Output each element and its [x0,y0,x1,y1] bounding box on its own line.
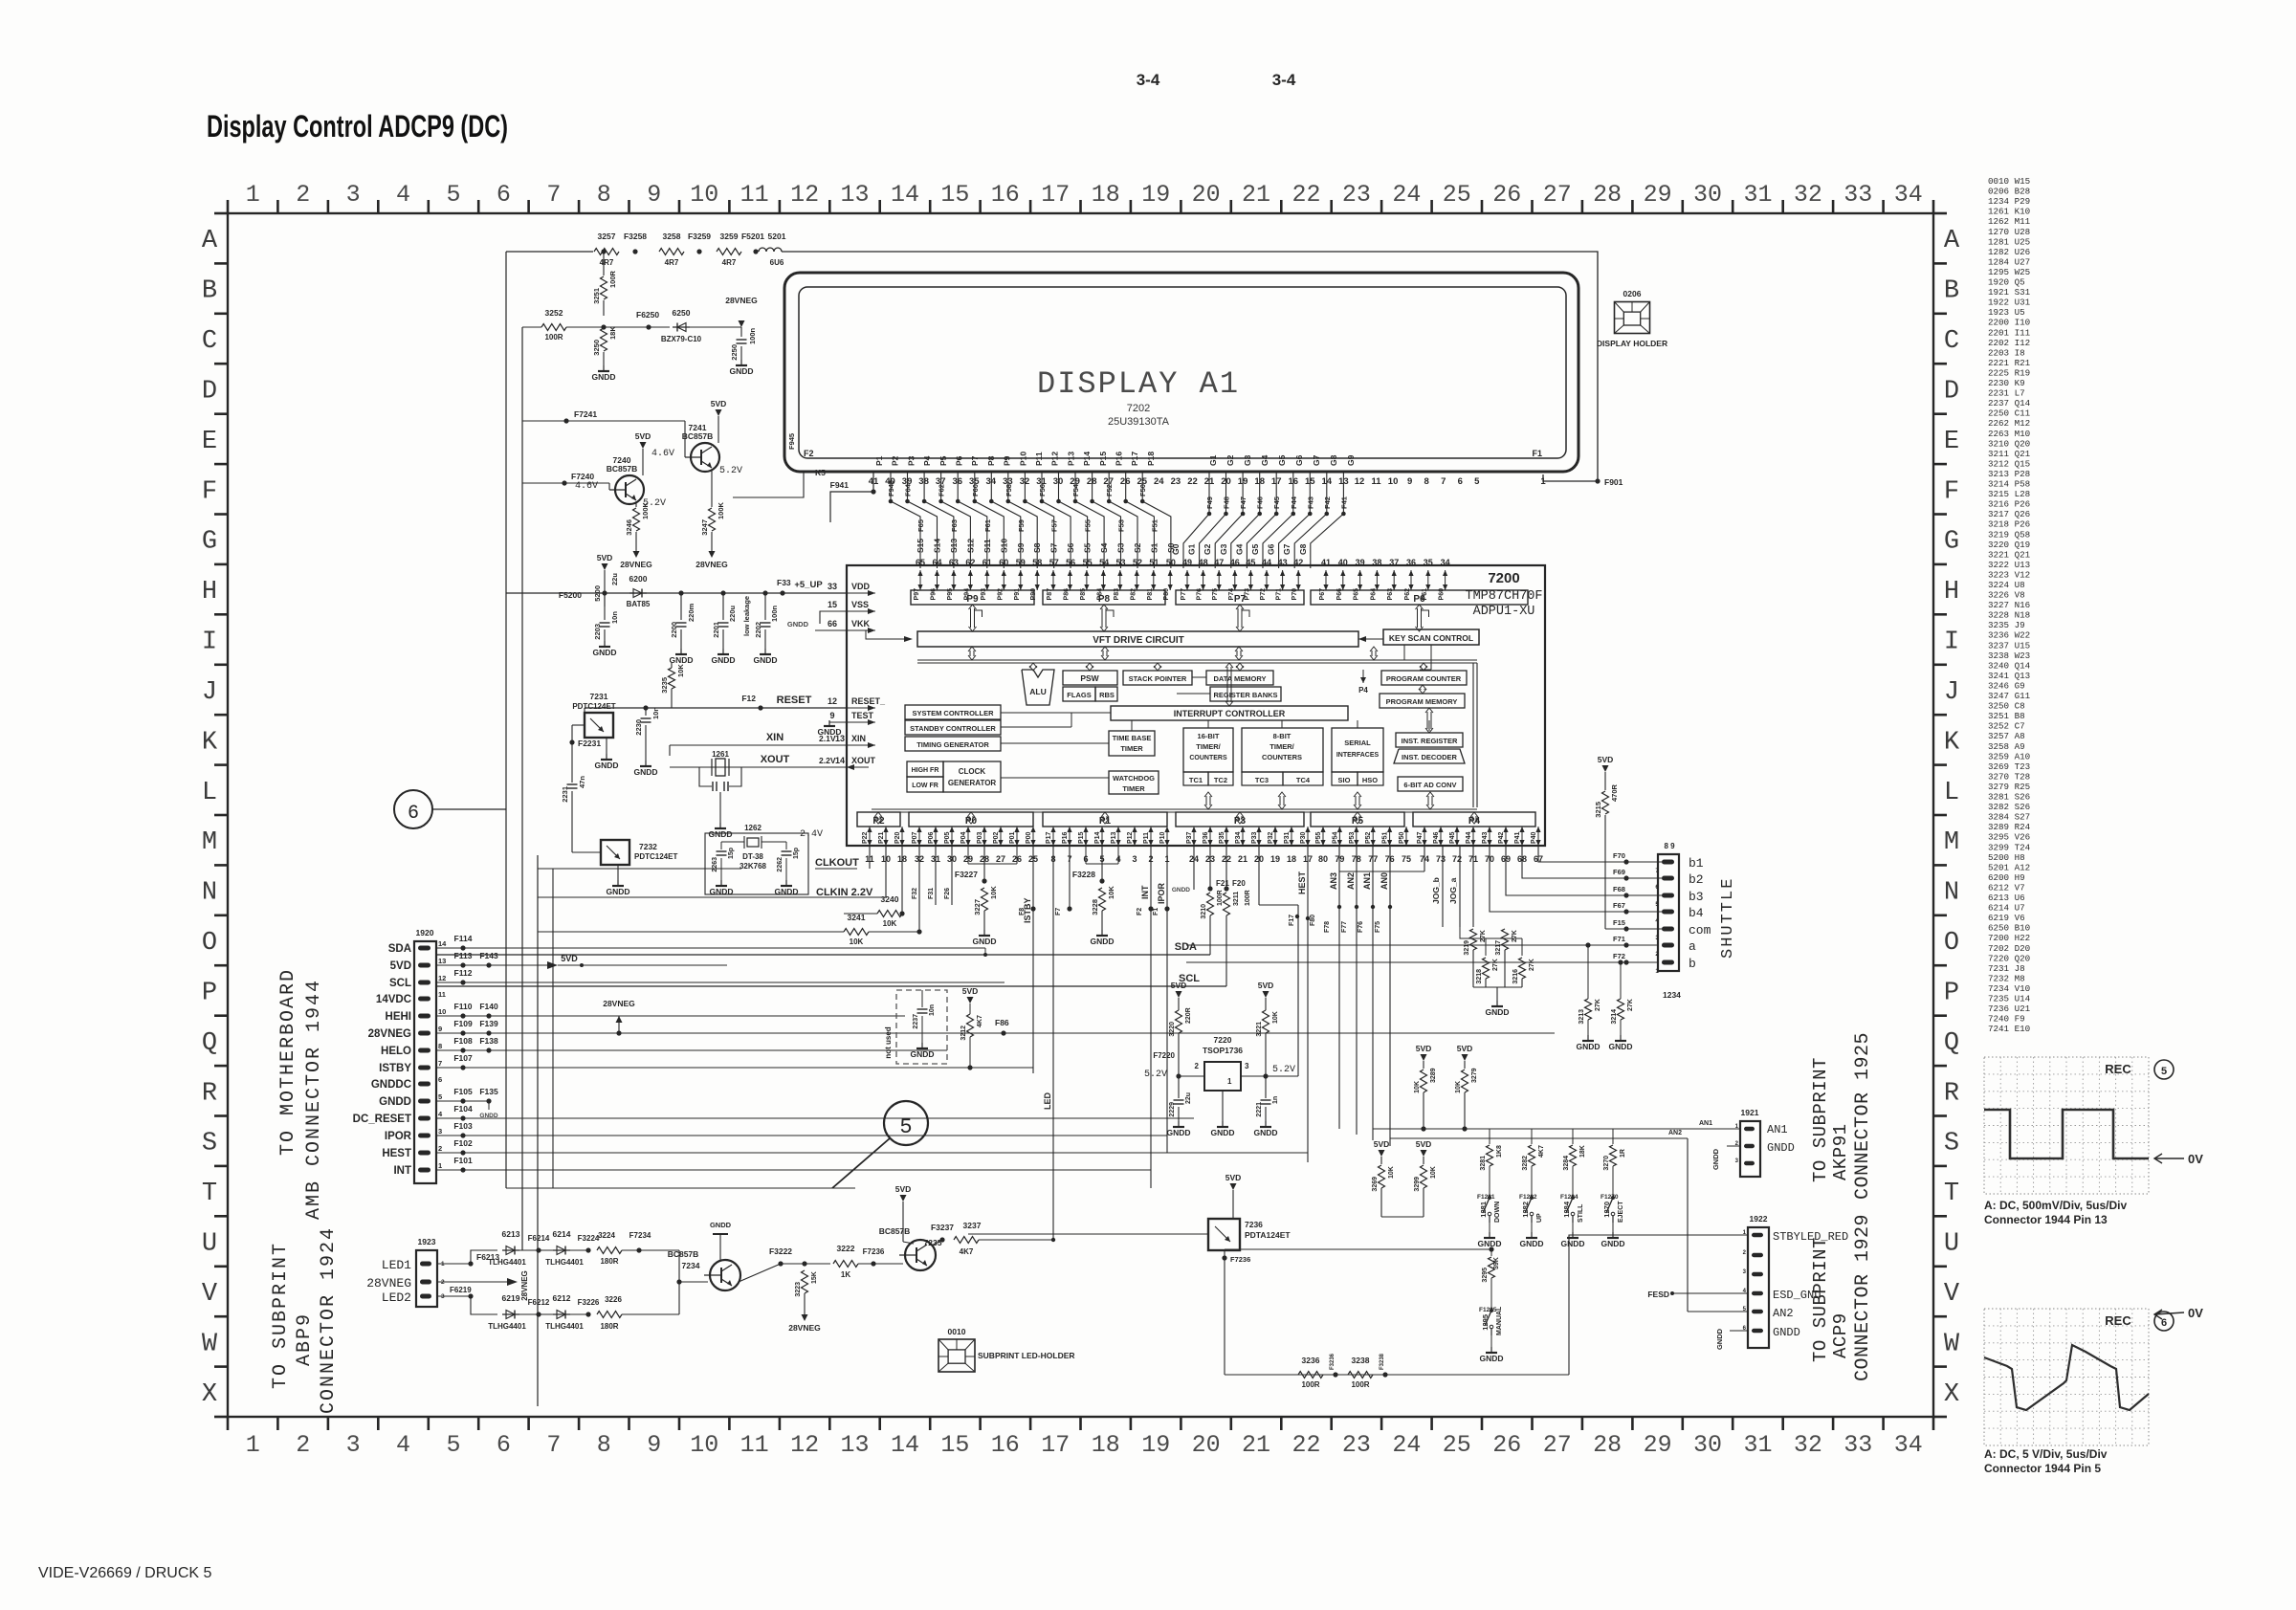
resistor 3251 100R vertical [603,252,605,276]
svg-text:F20: F20 [1232,879,1246,888]
svg-text:F113: F113 [454,951,473,960]
svg-text:F72: F72 [1613,952,1625,960]
svg-text:RESET_: RESET_ [851,696,886,706]
connector 1920 pin 8 HELO [418,1048,430,1053]
long vertical wire x546 [521,327,523,1250]
svg-text:6: 6 [1458,476,1463,487]
svg-text:1262 M11: 1262 M11 [1988,216,2031,227]
svg-text:P72: P72 [1260,588,1267,601]
resistor 3235 10K vertical [671,663,673,668]
svg-text:F46: F46 [1256,496,1265,509]
svg-text:3217 Q26: 3217 Q26 [1988,509,2030,519]
svg-text:2262: 2262 [777,857,784,872]
svg-text:XIN: XIN [851,734,866,743]
transistor 7235 BC857B [905,1240,936,1270]
svg-text:G4: G4 [1260,454,1269,466]
ground under 3250 [603,365,605,371]
svg-text:3257: 3257 [598,232,616,241]
svg-text:F114: F114 [454,934,473,943]
wire IPOR [436,1135,1167,1136]
svg-text:CONNECTOR 1925: CONNECTOR 1925 [1852,1032,1874,1200]
svg-text:9: 9 [647,181,661,209]
IC port box P5 [1311,812,1404,827]
svg-text:3228 N18: 3228 N18 [1988,610,2030,621]
svg-text:DISPLAY HOLDER: DISPLAY HOLDER [1597,339,1667,348]
svg-text:100R: 100R [544,333,563,342]
svg-text:F3226: F3226 [578,1298,600,1307]
connector 1920 pin 4 DC_RESET [418,1116,430,1121]
svg-text:P07: P07 [912,831,918,844]
svg-text:22: 22 [1291,181,1320,209]
svg-text:Q: Q [1944,1029,1959,1058]
SYSTEM CONTROLLER box [905,705,1001,719]
svg-text:H: H [202,578,217,607]
svg-text:3: 3 [1132,854,1137,864]
svg-text:2.4V: 2.4V [800,829,823,840]
svg-text:P4: P4 [922,455,932,466]
resistor 3246 100K vertical [633,508,640,531]
svg-text:SDA: SDA [388,943,411,955]
svg-text:P76: P76 [1197,588,1203,601]
svg-text:5: 5 [1655,901,1659,908]
svg-text:19: 19 [1141,1431,1170,1459]
svg-text:15p: 15p [728,848,735,859]
svg-text:MANUAL: MANUAL [1496,1306,1503,1335]
P4 riser from key scan [1403,645,1405,660]
svg-text:2221: 2221 [1256,1102,1263,1117]
svg-text:8-BIT: 8-BIT [1273,732,1291,740]
svg-text:F26: F26 [944,888,951,899]
svg-text:3: 3 [1655,935,1659,941]
svg-text:ALU: ALU [1029,687,1046,696]
svg-text:P16: P16 [1062,831,1069,844]
connector 1920 pin 6 GNDDC [418,1082,430,1087]
svg-text:24: 24 [1154,476,1164,487]
svg-text:7: 7 [546,181,561,209]
svg-text:SUBPRINT LED-HOLDER: SUBPRINT LED-HOLDER [978,1351,1075,1360]
resistor 3282 4K7 [1531,1129,1533,1144]
svg-text:1281 U25: 1281 U25 [1988,236,2030,247]
svg-text:TLHG4401: TLHG4401 [545,1322,584,1331]
pin stubs out of port P4 [1424,827,1425,846]
svg-text:TO MOTHERBOARD: TO MOTHERBOARD [277,968,299,1156]
svg-text:CLOCK: CLOCK [959,767,986,776]
svg-text:F71: F71 [1613,935,1625,943]
svg-text:3210 Q20: 3210 Q20 [1988,438,2030,449]
svg-text:F58: F58 [1004,484,1013,496]
svg-text:JOG_b: JOG_b [1431,877,1441,904]
svg-text:S9: S9 [1016,542,1026,553]
svg-text:1234 P29: 1234 P29 [1988,196,2030,207]
svg-text:VSS: VSS [851,600,869,609]
svg-text:P02: P02 [993,831,1000,844]
svg-text:HEST: HEST [1297,871,1307,894]
svg-text:3216 P26: 3216 P26 [1988,499,2030,510]
IC port box P1 [1043,812,1167,827]
svg-text:10K: 10K [1107,886,1115,899]
svg-text:S10: S10 [999,539,1008,553]
svg-text:1: 1 [246,1431,260,1459]
svg-text:S3: S3 [1116,542,1126,553]
svg-text:TLHG4401: TLHG4401 [488,1258,526,1267]
svg-text:6219 V6: 6219 V6 [1988,913,2025,923]
svg-text:P41: P41 [1514,831,1521,844]
svg-text:3270 T28: 3270 T28 [1988,771,2030,782]
pin stubs into port P6 [1325,570,1327,590]
svg-text:15p: 15p [793,848,800,859]
connector 1920 pin 5 GNDD [418,1099,430,1104]
svg-text:P: P [202,980,217,1008]
wire HEHI [436,1015,905,1017]
svg-text:18K: 18K [1579,1145,1586,1158]
wire y1306 horizontal to switch [1225,1248,1491,1250]
WATCHDOG TIMER box [1109,771,1159,794]
svg-text:28VNEG: 28VNEG [725,296,758,305]
connector 1922 body [1748,1227,1769,1348]
svg-text:20: 20 [1192,181,1221,209]
svg-text:2262 M12: 2262 M12 [1988,418,2030,429]
svg-text:7232: 7232 [639,842,657,851]
svg-text:13: 13 [840,1431,869,1459]
svg-text:P12: P12 [1127,831,1134,844]
connector 1923 body [416,1250,437,1307]
svg-text:16-BIT: 16-BIT [1198,732,1220,740]
svg-text:REGISTER BANKS: REGISTER BANKS [1213,691,1277,699]
svg-text:F101: F101 [453,1156,473,1165]
capacitor 2262 15p [785,842,787,849]
svg-text:33: 33 [1843,1431,1872,1459]
svg-text:G2: G2 [1203,543,1212,555]
svg-text:20: 20 [1192,1431,1221,1459]
svg-text:10: 10 [690,181,718,209]
svg-text:C: C [202,327,217,356]
wire LED1 to diode chain [437,1250,497,1264]
svg-text:GNDD: GNDD [1519,1239,1543,1248]
svg-text:3219 Q58: 3219 Q58 [1988,529,2030,540]
svg-text:G7: G7 [1282,543,1291,555]
svg-text:14: 14 [891,1431,919,1459]
svg-text:X: X [1944,1380,1959,1409]
svg-text:F7236: F7236 [1230,1255,1250,1264]
svg-text:3269 T23: 3269 T23 [1988,761,2030,772]
wire pin 24 down small gndd [1193,846,1195,890]
svg-text:27K: 27K [1595,999,1601,1011]
hollow arrow P7 to VFT bar [1237,608,1239,628]
svg-text:26: 26 [1492,1431,1521,1459]
svg-text:S1: S1 [1149,542,1159,553]
TSOP1736 IR receiver 7220 [1204,1062,1241,1091]
svg-text:3252 C7: 3252 C7 [1988,721,2025,732]
svg-text:F6219: F6219 [450,1286,472,1294]
svg-text:5VD: 5VD [962,986,979,996]
svg-text:P03: P03 [977,831,983,844]
svg-text:S4: S4 [1099,542,1109,553]
svg-text:F7241: F7241 [574,409,597,419]
arrow VFT to KEY SCAN [1358,638,1383,640]
IC U7200 TMP87CH70F body [847,565,1545,846]
svg-text:10K: 10K [850,937,864,946]
svg-text:7220 Q20: 7220 Q20 [1988,953,2030,963]
svg-text:P16: P16 [1115,452,1124,466]
svg-text:3284 S27: 3284 S27 [1988,812,2030,823]
28VNEG under 3247 [709,551,716,558]
svg-text:1270: 1270 [1602,1202,1611,1218]
svg-text:29: 29 [1644,181,1672,209]
svg-text:COUNTERS: COUNTERS [1262,753,1302,761]
long vertical wire left x529 lower [505,809,507,1188]
svg-text:com: com [1689,923,1711,937]
svg-text:F50: F50 [1138,484,1147,496]
svg-text:P66: P66 [1336,588,1343,601]
svg-text:INST. DECODER: INST. DECODER [1402,753,1458,761]
svg-text:3238 W23: 3238 W23 [1988,651,2030,661]
svg-text:UP: UP [1536,1213,1543,1223]
capacitor 2221 1n [1265,1076,1267,1098]
wire pin 5 down to resistor 3228 [1101,846,1103,881]
svg-text:TIMER: TIMER [1120,744,1143,753]
svg-text:AN2: AN2 [1346,872,1356,890]
svg-text:3279: 3279 [1471,1068,1478,1083]
svg-text:F31: F31 [928,888,935,899]
switch 1270 EJECT [1611,1196,1615,1200]
ground under 1261 [719,823,721,828]
connector 1920 pin 7 ISTBY [418,1066,430,1070]
svg-text:P55: P55 [1315,831,1322,844]
ground under 7231 [606,738,607,754]
svg-text:G4: G4 [1234,543,1244,555]
svg-text:P35: P35 [1219,831,1225,844]
svg-text:F2: F2 [1137,908,1143,915]
svg-text:P6: P6 [955,455,964,466]
svg-text:7240 F9: 7240 F9 [1988,1014,2025,1025]
svg-text:KEY SCAN CONTROL: KEY SCAN CONTROL [1389,633,1473,643]
svg-text:1: 1 [438,1161,442,1170]
svg-text:JOG_a: JOG_a [1448,877,1458,904]
svg-text:XIN: XIN [766,732,784,743]
svg-text:P65: P65 [1354,588,1360,601]
junction F7235 [871,1261,875,1266]
junction F33 [780,590,784,595]
svg-text:F48: F48 [1223,496,1231,509]
svg-text:3224: 3224 [598,1231,615,1240]
wire ISTBY [436,1067,1033,1069]
svg-text:12: 12 [1355,476,1365,487]
TC1 TC2 boxes [1183,772,1208,785]
svg-text:3228: 3228 [1091,899,1099,915]
svg-text:220m: 220m [687,603,695,622]
svg-text:14: 14 [835,756,845,765]
svg-text:3216: 3216 [1512,969,1519,984]
connector 1920 pin 13 5VD [418,963,430,968]
svg-text:P81: P81 [1147,588,1154,601]
svg-text:S15: S15 [916,539,925,553]
svg-text:3259 A10: 3259 A10 [1988,751,2030,761]
svg-text:F45: F45 [1272,496,1281,509]
svg-text:F3258: F3258 [624,232,647,241]
svg-text:F: F [1944,477,1959,506]
svg-text:P67: P67 [1319,588,1326,601]
svg-text:7235: 7235 [924,1238,942,1247]
resistor 3257 4R7 [594,249,619,255]
svg-text:2229: 2229 [1169,1102,1176,1117]
svg-text:7: 7 [1441,476,1446,487]
svg-text:P45: P45 [1449,831,1456,844]
svg-text:1K8: 1K8 [1496,1145,1503,1158]
scope 6 circled 6 [2154,1312,2174,1331]
resistor network 3219 3218 3217 3216 27K [1470,929,1477,950]
svg-text:GNDD: GNDD [1711,1148,1720,1170]
wire SDA from connector [436,947,985,949]
INST. DECODER trapezoid [1394,749,1465,763]
display A1 outer rounded body [784,273,1578,472]
svg-text:P7: P7 [970,455,980,466]
IC port box P0 [909,812,1033,827]
svg-text:P3: P3 [906,455,916,466]
svg-text:J: J [202,678,217,707]
junction F3228 [1099,878,1104,883]
resistor 3270 1R [1612,1129,1614,1144]
svg-text:3221: 3221 [1256,1022,1263,1037]
wires pins 23,22 down to SDA/SCL resistors [1209,846,1211,889]
b-group tie wire at y911 [1339,871,1424,872]
ground under 2250 [740,360,742,365]
svg-text:6213: 6213 [502,1229,520,1239]
svg-text:10K: 10K [1388,1166,1395,1179]
svg-text:P46: P46 [1433,831,1440,844]
28VNEG arrow at 1923 [437,1281,507,1283]
svg-text:P97: P97 [914,588,920,601]
svg-text:a: a [1689,939,1696,954]
svg-text:TC2: TC2 [1214,776,1227,784]
svg-text:F6214: F6214 [528,1234,550,1243]
svg-text:F7: F7 [1055,908,1062,915]
diode 6219 TLHG4401 [502,1313,519,1315]
svg-text:TIMER: TIMER [1122,784,1145,793]
svg-text:6: 6 [497,1431,511,1459]
svg-text:7200 H22: 7200 H22 [1988,933,2030,943]
pin stubs out of port P0 [918,827,920,846]
HIGH FR box [907,761,943,777]
svg-text:P60: P60 [1439,588,1446,601]
svg-text:P73: P73 [1244,588,1250,601]
svg-text:13: 13 [438,957,446,965]
svg-text:I: I [202,629,217,657]
svg-text:9: 9 [438,1025,442,1033]
wire into 7236 from left [968,1233,1208,1235]
svg-text:AN2: AN2 [1668,1130,1682,1136]
diode 6214 TLHG4401 [553,1249,570,1251]
REGISTER BANKS box [1210,687,1281,701]
svg-text:F139: F139 [479,1019,498,1028]
svg-text:10n: 10n [651,707,660,719]
svg-text:3240: 3240 [881,894,899,904]
svg-text:P94: P94 [963,588,970,601]
8-BIT TIMER/COUNTERS box [1242,728,1323,772]
svg-text:3214 P58: 3214 P58 [1988,479,2030,490]
connector 1923 pin 2 28VNEG [420,1280,431,1285]
svg-text:L: L [202,779,217,807]
svg-text:STILL: STILL [1578,1203,1584,1223]
svg-text:F135: F135 [479,1087,498,1096]
svg-text:14: 14 [891,181,919,209]
svg-text:3211 Q21: 3211 Q21 [1988,449,2031,459]
svg-text:2: 2 [438,1144,442,1153]
28VNEG under 3223 [802,1314,808,1321]
svg-text:2231: 2231 [561,786,569,803]
svg-text:GNDD: GNDD [1485,1007,1509,1017]
crystal 1262 DT-38 32K768 cluster box [705,833,808,894]
svg-text:19: 19 [1270,854,1280,864]
wire pin 18 down to 3240 [901,846,903,914]
svg-text:O: O [1944,929,1959,958]
svg-text:TIMING GENERATOR: TIMING GENERATOR [916,740,989,749]
svg-text:3218: 3218 [1476,969,1483,984]
svg-text:11: 11 [1371,476,1381,487]
pin stubs into port P8 [1052,570,1054,590]
svg-text:3227 N16: 3227 N16 [1988,600,2030,610]
svg-text:E: E [1944,428,1959,456]
bus bottom double line [872,808,1477,810]
svg-text:F140: F140 [479,1002,498,1011]
svg-text:O: O [202,929,217,958]
svg-text:N: N [1944,879,1959,908]
svg-text:2201 I11: 2201 I11 [1988,327,2031,338]
wire display pin 1 to F901 [1543,474,1552,481]
svg-text:15: 15 [940,181,969,209]
svg-text:23: 23 [1342,1431,1371,1459]
svg-text:3250 C8: 3250 C8 [1988,701,2025,712]
SDA bus wire [436,954,1210,956]
svg-text:M: M [202,828,217,857]
svg-text:P53: P53 [1349,831,1356,844]
IC port box P8 [1043,590,1165,605]
junction F3237 [939,1237,944,1242]
svg-text:BAT85: BAT85 [627,600,651,608]
junction F3259 [696,249,701,254]
svg-text:66: 66 [828,619,837,629]
svg-text:9: 9 [1407,476,1412,487]
svg-text:F941: F941 [830,480,850,490]
capacitor 2230 10n [645,708,647,716]
svg-text:6-BIT AD CONV: 6-BIT AD CONV [1403,781,1456,789]
svg-text:4: 4 [396,1431,410,1459]
svg-text:27K: 27K [1529,959,1535,971]
STACK POINTER box [1123,671,1192,685]
svg-text:G8: G8 [1329,454,1338,466]
svg-text:180R: 180R [600,1257,618,1266]
junction F5200 [602,590,607,595]
resistor 3247 100K vertical [709,508,716,531]
scope 5 0V arrow [2154,1158,2184,1159]
resistor 3237 4K7 [954,1237,979,1244]
RBS box [1095,687,1117,701]
svg-text:G2: G2 [1225,454,1235,466]
svg-text:5VD: 5VD [1416,1044,1432,1053]
svg-text:2200 I10: 2200 I10 [1988,318,2030,328]
svg-text:13: 13 [840,181,869,209]
svg-text:4R7: 4R7 [722,258,737,267]
svg-text:7: 7 [1655,868,1659,874]
svg-text:G3: G3 [1219,543,1228,555]
junction F2231 [569,739,574,744]
arrow program counter to memory [1420,689,1422,690]
svg-text:28VNEG: 28VNEG [366,1276,411,1290]
svg-text:F109: F109 [453,1019,473,1028]
svg-text:10n: 10n [929,1004,936,1016]
svg-text:5VD: 5VD [635,431,651,441]
scope 6 waveform [1984,1345,2149,1410]
svg-text:100R: 100R [608,270,617,288]
